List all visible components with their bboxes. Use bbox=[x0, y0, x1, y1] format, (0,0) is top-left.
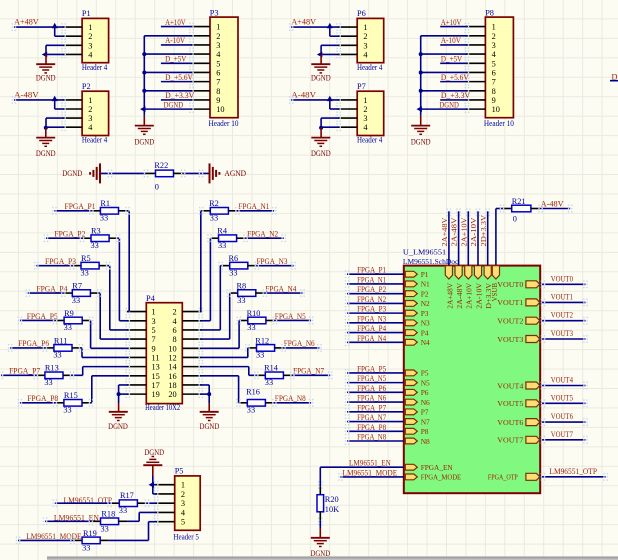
wire FPGA_P1 to R1 bbox=[52, 207, 100, 215]
svg-text:FPGA_P7: FPGA_P7 bbox=[357, 403, 386, 412]
sheet entry FPGA_OTP bbox=[488, 473, 540, 482]
ground DGND below P8 bus bbox=[411, 116, 431, 147]
svg-text:D_+5.6V: D_+5.6V bbox=[165, 73, 193, 82]
ground DGND below P2 bbox=[36, 128, 56, 158]
svg-text:Header 4: Header 4 bbox=[357, 63, 383, 72]
net label FPGA_N4 at sheet bbox=[357, 334, 387, 343]
svg-text:33: 33 bbox=[100, 214, 108, 223]
svg-text:Header 10: Header 10 bbox=[209, 119, 239, 128]
wire FPGA_P8 to R15 bbox=[18, 399, 64, 407]
svg-text:A-10V: A-10V bbox=[165, 36, 185, 45]
svg-text:A+10V: A+10V bbox=[165, 18, 186, 27]
svg-text:VOUT6: VOUT6 bbox=[551, 412, 573, 421]
sheet entry N3 bbox=[405, 319, 430, 328]
net label FPGA_N8 at sheet bbox=[357, 433, 386, 442]
wire to pin 2 bbox=[330, 100, 339, 109]
wire LM96551_MODE to sheet entry FPGA_MODE bbox=[338, 473, 404, 481]
svg-text:7: 7 bbox=[216, 78, 220, 87]
ground bus vertical wire bbox=[420, 36, 422, 116]
wire R14 to FPGA_N7 bbox=[283, 371, 332, 379]
svg-text:VOUT4: VOUT4 bbox=[497, 381, 523, 390]
svg-text:12: 12 bbox=[168, 353, 176, 362]
svg-text:2A-48V: 2A-48V bbox=[450, 217, 459, 247]
wire R21 to A-48V bbox=[531, 205, 573, 213]
net label FPGA_P6 at sheet bbox=[357, 384, 386, 393]
bus junctions bbox=[419, 52, 423, 93]
wire to pin 2 bbox=[55, 27, 64, 36]
svg-text:A+10V: A+10V bbox=[441, 18, 462, 27]
wire 2A-10V bbox=[476, 208, 481, 265]
wire D_+5.6V to pin 7 bbox=[161, 81, 192, 83]
pins 1-10 of P3 bbox=[189, 23, 210, 113]
svg-text:FPGA_N2: FPGA_N2 bbox=[247, 230, 278, 239]
net label LM96551_EN at R18 bbox=[54, 514, 99, 523]
svg-text:R19: R19 bbox=[83, 529, 97, 538]
svg-text:R5: R5 bbox=[81, 254, 91, 263]
wire FPGA_N6 to sheet entry N6 bbox=[345, 398, 404, 406]
net label DGND on pin 10 wire bbox=[164, 100, 184, 109]
junction bbox=[52, 23, 58, 29]
junction at P7 pin 4 bbox=[319, 126, 323, 130]
power port DGND above P5 bbox=[143, 448, 164, 476]
svg-text:Header 5: Header 5 bbox=[173, 532, 199, 541]
junction at P1 pin 4 bbox=[42, 52, 48, 58]
svg-text:1: 1 bbox=[152, 308, 156, 317]
svg-text:D_+3.3V: D_+3.3V bbox=[441, 91, 470, 100]
svg-text:13: 13 bbox=[152, 363, 160, 372]
wire FPGA_P8 to sheet entry P8 bbox=[345, 427, 404, 435]
wire sheet entry VOUT1 to net label bbox=[540, 299, 588, 307]
sheet entry N1 bbox=[405, 280, 430, 289]
svg-text:P1: P1 bbox=[421, 270, 429, 279]
net label A+10V bbox=[441, 18, 462, 27]
svg-text:2A+10V: 2A+10V bbox=[465, 282, 474, 308]
svg-text:FPGA_N1: FPGA_N1 bbox=[357, 275, 386, 284]
svg-text:R10: R10 bbox=[247, 309, 261, 318]
resistor R13 bbox=[44, 364, 63, 387]
net label A-48V bbox=[541, 200, 564, 209]
wire to pin 3 bbox=[46, 45, 64, 54]
net label LM96551_OTP at R17 bbox=[64, 496, 113, 505]
svg-text:DGND: DGND bbox=[36, 74, 56, 83]
wire R12 to FPGA_N6 bbox=[275, 344, 322, 352]
power net label 2A+10V bbox=[459, 217, 468, 247]
wire R1 to P4 pin 1 bbox=[119, 207, 130, 312]
net label A-48V bbox=[14, 91, 39, 100]
svg-text:P1: P1 bbox=[82, 9, 91, 18]
svg-text:DGND: DGND bbox=[134, 137, 154, 146]
svg-text:Header 4: Header 4 bbox=[357, 136, 383, 145]
svg-text:R4: R4 bbox=[217, 227, 228, 236]
bus junctions bbox=[142, 52, 146, 93]
wire R2 to FPGA_N1 bbox=[228, 207, 276, 215]
net label FPGA_N8 bbox=[275, 394, 306, 403]
svg-text:LM96551_OTP: LM96551_OTP bbox=[549, 467, 597, 476]
wire D_+3.3V to pin 9 bbox=[161, 99, 192, 101]
net label LM96551_EN bbox=[349, 459, 391, 468]
net label DGND on pin 10 wire bbox=[439, 100, 459, 109]
net label VOUT1 bbox=[551, 292, 573, 301]
resistor R14 bbox=[264, 364, 283, 387]
svg-text:3: 3 bbox=[152, 317, 156, 326]
net label FPGA_N6 bbox=[284, 339, 315, 348]
svg-text:3: 3 bbox=[363, 41, 367, 50]
wire FPGA_P4 to R7 bbox=[25, 289, 72, 297]
svg-text:P2: P2 bbox=[82, 82, 91, 91]
svg-text:N3: N3 bbox=[421, 319, 430, 328]
wire sheet entry FPGA_OTP to net label bbox=[540, 473, 608, 481]
svg-text:R9: R9 bbox=[64, 309, 74, 318]
net label FPGA_P1 at sheet bbox=[357, 266, 386, 275]
svg-text:A+48V: A+48V bbox=[291, 18, 316, 27]
svg-text:33: 33 bbox=[256, 351, 264, 360]
net label A+48V bbox=[14, 18, 39, 27]
svg-text:33: 33 bbox=[210, 214, 218, 223]
svg-text:FPGA_OTP: FPGA_OTP bbox=[488, 473, 518, 482]
svg-text:P5: P5 bbox=[175, 467, 184, 476]
svg-text:R3: R3 bbox=[91, 227, 101, 236]
svg-text:33: 33 bbox=[218, 241, 226, 250]
svg-text:R13: R13 bbox=[45, 364, 59, 373]
net label FPGA_N2 bbox=[247, 230, 278, 239]
svg-text:D_+5V: D_+5V bbox=[441, 54, 462, 63]
wire A+10V to pin 1 bbox=[161, 26, 192, 28]
svg-text:7: 7 bbox=[152, 335, 156, 344]
wire A+48V to pin 1 bbox=[289, 23, 339, 31]
svg-text:3: 3 bbox=[88, 114, 92, 123]
resistor R2 bbox=[209, 199, 228, 222]
svg-text:VOUT7: VOUT7 bbox=[551, 430, 573, 439]
wire to pin 3 bbox=[46, 118, 64, 127]
svg-text:R15: R15 bbox=[64, 391, 78, 400]
svg-text:AGND: AGND bbox=[224, 169, 246, 178]
svg-text:7: 7 bbox=[492, 78, 496, 87]
svg-text:R16: R16 bbox=[246, 387, 260, 396]
wire R8 to FPGA_N4 bbox=[256, 289, 305, 297]
wire FPGA_P4 to sheet entry P4 bbox=[345, 329, 404, 337]
net label VOUT4 bbox=[551, 376, 574, 385]
svg-text:P4: P4 bbox=[421, 328, 429, 337]
svg-text:N6: N6 bbox=[421, 398, 430, 407]
svg-text:33: 33 bbox=[44, 378, 52, 387]
net label FPGA_N7 bbox=[293, 367, 324, 376]
svg-text:Header 4: Header 4 bbox=[82, 63, 108, 72]
svg-text:FPGA_N3: FPGA_N3 bbox=[357, 314, 386, 323]
header P1 bbox=[82, 9, 109, 72]
wire bus to pin 10 bbox=[421, 108, 467, 110]
power port AGND (right of R22) bbox=[210, 163, 247, 183]
sheet entry D+3.3V (top) bbox=[484, 266, 493, 309]
wire LM96551_EN to R20 bbox=[318, 467, 323, 495]
wire FPGA_P6 to sheet entry P6 bbox=[345, 388, 404, 396]
svg-text:3: 3 bbox=[181, 499, 185, 508]
wire R16 to FPGA_N8 bbox=[265, 399, 313, 407]
svg-text:A+48V: A+48V bbox=[14, 18, 39, 27]
svg-text:LM96551.SchDoc: LM96551.SchDoc bbox=[403, 257, 459, 266]
net label FPGA_N5 bbox=[275, 312, 306, 321]
sheet entry VOUT5 bbox=[497, 399, 540, 408]
wire P4 pin 16 to R16 bbox=[201, 376, 247, 407]
svg-text:9: 9 bbox=[492, 96, 496, 105]
svg-text:R6: R6 bbox=[229, 254, 239, 263]
net label VOUT0 bbox=[551, 274, 573, 283]
svg-text:FPGA_P3: FPGA_P3 bbox=[45, 257, 76, 266]
wire bus to pin 2 bbox=[144, 35, 191, 37]
svg-text:10: 10 bbox=[216, 105, 224, 114]
svg-text:FPGA_N5: FPGA_N5 bbox=[275, 312, 306, 321]
svg-text:VOUT3: VOUT3 bbox=[551, 329, 573, 338]
svg-text:33: 33 bbox=[72, 296, 80, 305]
svg-text:VOUT1: VOUT1 bbox=[497, 298, 523, 307]
svg-text:33: 33 bbox=[265, 378, 273, 387]
svg-text:R12: R12 bbox=[255, 336, 269, 345]
svg-text:2A-10V: 2A-10V bbox=[469, 217, 478, 247]
svg-text:9: 9 bbox=[216, 96, 220, 105]
bus junction arrow at pin10 row bbox=[416, 106, 422, 112]
sheet entry FPGA_EN bbox=[405, 463, 453, 472]
wire sheet entry VOUT0 to net label bbox=[540, 280, 588, 288]
net label A-48V bbox=[291, 91, 316, 100]
pins of P4 left side bbox=[126, 308, 147, 398]
svg-text:N5: N5 bbox=[421, 378, 430, 387]
svg-text:FPGA_P4: FPGA_P4 bbox=[36, 284, 68, 293]
net label FPGA_P5 at sheet bbox=[357, 364, 386, 373]
svg-text:R18: R18 bbox=[101, 509, 115, 518]
net label FPGA_N5 at sheet bbox=[357, 374, 386, 383]
ground DGND below P1 bbox=[36, 55, 56, 83]
wire P4 pins 17,19 to ground bbox=[119, 385, 128, 403]
svg-text:DGND: DGND bbox=[311, 74, 331, 83]
power net label 2D+3.3V bbox=[479, 214, 488, 246]
wire to pin 3 bbox=[321, 45, 339, 54]
svg-text:D_+3.3V: D_+3.3V bbox=[165, 91, 194, 100]
svg-text:N2: N2 bbox=[421, 299, 430, 308]
svg-text:FPGA_N7: FPGA_N7 bbox=[357, 413, 386, 422]
wire D_+3.3V to pin 9 bbox=[440, 99, 467, 101]
svg-text:2A-10V: 2A-10V bbox=[474, 282, 483, 308]
net label FPGA_P1 bbox=[65, 202, 96, 211]
net label VOUT6 bbox=[551, 412, 573, 421]
net label VOUT7 bbox=[551, 430, 573, 439]
svg-text:17: 17 bbox=[152, 381, 160, 390]
net label D_+5V bbox=[165, 54, 186, 63]
svg-text:R21: R21 bbox=[512, 197, 526, 206]
power net label 2A-48V bbox=[450, 217, 459, 247]
wire to pin 4 bbox=[321, 126, 339, 128]
wire sheet entry VOUT5 to net label bbox=[540, 399, 588, 407]
svg-text:P6: P6 bbox=[421, 388, 429, 397]
svg-text:18: 18 bbox=[168, 381, 176, 390]
header P6 bbox=[357, 9, 384, 72]
net label FPGA_P3 bbox=[45, 257, 76, 266]
wire FPGA_P7 to sheet entry P7 bbox=[345, 408, 404, 416]
net label FPGA_N7 at sheet bbox=[357, 413, 386, 422]
wire LM96551_EN to R18 bbox=[43, 517, 101, 525]
resistor R20 bbox=[317, 495, 339, 515]
wire FPGA_N5 to sheet entry N5 bbox=[345, 379, 404, 387]
net label FPGA_P2 at sheet bbox=[357, 285, 386, 294]
svg-text:FPGA_N7: FPGA_N7 bbox=[293, 367, 324, 376]
wire FPGA_P2 to sheet entry P2 bbox=[345, 290, 404, 298]
svg-text:A-10V: A-10V bbox=[441, 36, 461, 45]
svg-text:2: 2 bbox=[88, 105, 92, 114]
svg-text:DGND: DGND bbox=[164, 100, 184, 109]
svg-text:2: 2 bbox=[181, 490, 185, 499]
svg-text:33: 33 bbox=[119, 506, 127, 515]
net label FPGA_N1 at sheet bbox=[357, 275, 386, 284]
svg-text:33: 33 bbox=[91, 241, 99, 250]
resistor R3 bbox=[91, 227, 110, 250]
wire R6 to FPGA_N3 bbox=[248, 262, 296, 270]
resistor R9 bbox=[64, 309, 83, 332]
svg-text:N1: N1 bbox=[421, 280, 430, 289]
wire to pin 4 bbox=[321, 53, 339, 55]
svg-text:33: 33 bbox=[229, 268, 237, 277]
wire P4 pin 10 to R10 bbox=[201, 317, 248, 349]
wire R3 to P4 pin 3 bbox=[109, 234, 128, 320]
net label FPGA_P5 bbox=[27, 312, 58, 321]
svg-text:2: 2 bbox=[492, 32, 496, 41]
wire DGND to P5 pins 1,2 bbox=[153, 476, 156, 494]
wire LM96551_EN to sheet entry FPGA_EN bbox=[320, 466, 404, 468]
pins 1-4 of P2 bbox=[61, 96, 82, 131]
svg-text:VOUT2: VOUT2 bbox=[551, 311, 573, 320]
wire FPGA_P3 to sheet entry P3 bbox=[345, 309, 404, 317]
wire D_+5V to pin 5 bbox=[440, 62, 467, 64]
svg-text:FPGA_MODE: FPGA_MODE bbox=[421, 473, 462, 482]
svg-text:FPGA_P1: FPGA_P1 bbox=[65, 202, 96, 211]
svg-text:FPGA_P2: FPGA_P2 bbox=[357, 285, 386, 294]
resistor R8 bbox=[237, 281, 256, 304]
header P8 bbox=[484, 8, 514, 128]
svg-text:DGND: DGND bbox=[411, 137, 431, 146]
net label FPGA_P8 bbox=[27, 394, 58, 403]
svg-text:2A+10V: 2A+10V bbox=[459, 217, 468, 247]
svg-text:P8: P8 bbox=[485, 8, 494, 17]
ground DGND below P7 bbox=[311, 128, 331, 158]
header P7 bbox=[357, 82, 384, 145]
resistor R22 bbox=[146, 161, 183, 192]
svg-text:FPGA_N6: FPGA_N6 bbox=[357, 394, 386, 403]
wire LM96551_MODE to R19 bbox=[16, 537, 82, 545]
svg-text:33: 33 bbox=[237, 296, 245, 305]
wire FPGA_P5 to R9 bbox=[18, 317, 65, 325]
wire A+48V to pin 1 bbox=[12, 23, 64, 31]
svg-text:LM96551_EN: LM96551_EN bbox=[349, 459, 391, 468]
net label A-10V bbox=[165, 36, 185, 45]
svg-text:N4: N4 bbox=[421, 338, 430, 347]
svg-text:VOUT4: VOUT4 bbox=[551, 376, 574, 385]
wire bus to pin 10 bbox=[144, 108, 191, 110]
svg-text:2D+3.3V: 2D+3.3V bbox=[479, 214, 488, 246]
svg-text:N8: N8 bbox=[421, 437, 430, 446]
sheet entry N2 bbox=[405, 299, 430, 308]
wire A-10V to pin 3 bbox=[440, 44, 467, 46]
svg-text:Header 10: Header 10 bbox=[484, 119, 514, 128]
svg-text:FPGA_P1: FPGA_P1 bbox=[357, 266, 386, 275]
ground DGND below R20 bbox=[310, 528, 330, 558]
svg-text:8: 8 bbox=[173, 335, 177, 344]
svg-text:A-48V: A-48V bbox=[541, 200, 564, 209]
wire VSUB to R21 bbox=[496, 205, 512, 266]
junction bbox=[117, 392, 121, 396]
svg-text:2A-48V: 2A-48V bbox=[455, 282, 464, 308]
svg-text:R2: R2 bbox=[209, 199, 219, 208]
sheet entry N5 bbox=[405, 378, 430, 387]
wire R15 to P4 pin 15 bbox=[82, 376, 128, 407]
svg-text:FPGA_P5: FPGA_P5 bbox=[357, 364, 386, 373]
resistor R21 bbox=[512, 197, 531, 224]
svg-text:R11: R11 bbox=[54, 336, 68, 345]
wire bus to pin 2 bbox=[421, 35, 467, 37]
wire 2D+3.3V bbox=[485, 208, 490, 265]
svg-text:D_+5.6V: D_+5.6V bbox=[441, 73, 469, 82]
svg-text:1: 1 bbox=[88, 23, 92, 32]
svg-text:D_+5V: D_+5V bbox=[165, 54, 186, 63]
sheet entry N6 bbox=[405, 398, 430, 407]
resistor R7 bbox=[72, 281, 91, 304]
svg-text:FPGA_P6: FPGA_P6 bbox=[18, 339, 49, 348]
svg-text:2: 2 bbox=[363, 32, 367, 41]
net label D_+3.3V bbox=[165, 91, 194, 100]
resistor R4 bbox=[217, 227, 236, 250]
svg-text:LM96551_MODE: LM96551_MODE bbox=[343, 468, 398, 477]
wire A-48V to pin 1 bbox=[12, 96, 64, 104]
junction bbox=[207, 392, 211, 396]
svg-text:DGND: DGND bbox=[144, 448, 164, 457]
svg-text:8: 8 bbox=[216, 87, 220, 96]
wire A-48V to pin 1 bbox=[289, 96, 339, 104]
svg-text:R1: R1 bbox=[100, 199, 110, 208]
sheet entry VOUT1 bbox=[497, 298, 540, 307]
wire R11 to P4 pin 11 bbox=[72, 344, 128, 357]
net label LM96551_MODE at R19 bbox=[26, 532, 81, 541]
wire R22 to AGND bbox=[181, 170, 211, 178]
sheet entry P8 bbox=[405, 427, 429, 436]
net label LM96551_OTP bbox=[549, 467, 597, 476]
wire bus to pin 4 bbox=[421, 53, 467, 55]
svg-text:33: 33 bbox=[64, 323, 72, 332]
svg-text:DGND: DGND bbox=[62, 169, 82, 178]
header P3 bbox=[209, 8, 239, 128]
resistor R1 bbox=[100, 199, 119, 222]
svg-text:2: 2 bbox=[216, 32, 220, 41]
wire R19 to P5 pin 5 bbox=[100, 522, 156, 541]
svg-text:VOUT5: VOUT5 bbox=[551, 393, 573, 402]
wire bus to pin 6 bbox=[144, 71, 191, 73]
net label LM96551_MODE bbox=[343, 468, 398, 477]
wire D_+5V to pin 5 bbox=[161, 62, 192, 64]
power port DGND (left of R22) bbox=[62, 163, 100, 183]
window edge at bottom bbox=[47, 557, 618, 560]
sheet entry N7 bbox=[405, 417, 430, 426]
wire 2A-48V bbox=[456, 208, 461, 265]
junction at P5 pin 1 bbox=[149, 482, 155, 488]
svg-text:0: 0 bbox=[513, 215, 517, 224]
svg-text:33: 33 bbox=[247, 406, 255, 415]
pins of P4 right side bbox=[182, 308, 203, 398]
svg-text:R20: R20 bbox=[325, 495, 339, 504]
header P5 bbox=[173, 467, 200, 542]
wire FPGA_N3 to sheet entry N3 bbox=[345, 319, 404, 327]
svg-text:FPGA_N3: FPGA_N3 bbox=[257, 257, 288, 266]
wire to pin 3 bbox=[321, 118, 339, 127]
svg-text:Header 4: Header 4 bbox=[82, 136, 108, 145]
svg-text:FPGA_N2: FPGA_N2 bbox=[357, 295, 386, 304]
svg-text:FPGA_P6: FPGA_P6 bbox=[357, 384, 386, 393]
svg-text:FPGA_P3: FPGA_P3 bbox=[357, 305, 386, 314]
svg-text:VOUT5: VOUT5 bbox=[497, 399, 523, 408]
